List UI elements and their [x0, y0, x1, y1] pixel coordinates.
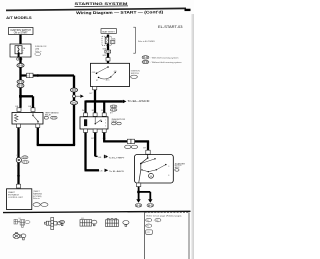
svg-text:Refer to: Refer to — [33, 197, 40, 200]
svg-text:M3: M3 — [147, 226, 149, 228]
svg-text:Refer to EL-POWER.: Refer to EL-POWER. — [138, 40, 155, 43]
svg-text:B: B — [168, 175, 169, 177]
svg-text:SWITCH: SWITCH — [131, 73, 139, 75]
svg-text:L5: L5 — [16, 155, 18, 157]
svg-text:: With theft warning system: : With theft warning system — [151, 56, 179, 59]
svg-text:A/T MODELS: A/T MODELS — [6, 16, 32, 20]
svg-text:F23: F23 — [147, 232, 150, 234]
svg-text:EL-START-03: EL-START-03 — [158, 25, 183, 29]
svg-text:3: 3 — [105, 122, 106, 124]
svg-text:S: S — [168, 166, 169, 168]
svg-text:M: M — [150, 176, 152, 178]
svg-text:5: 5 — [105, 125, 106, 127]
svg-text:M1: M1 — [147, 220, 149, 222]
svg-text:W/R: W/R — [103, 55, 107, 57]
svg-text:: Without theft warning system: : Without theft warning system — [151, 61, 182, 64]
svg-text:IGNITION SWITCH: IGNITION SWITCH — [10, 30, 31, 32]
svg-text:To EL-THEFT: To EL-THEFT — [109, 157, 126, 159]
svg-text:ON or START: ON or START — [14, 32, 29, 35]
svg-text:M5: M5 — [19, 218, 21, 220]
svg-text:STARTING SYSTEM: STARTING SYSTEM — [75, 1, 128, 6]
svg-text:22: 22 — [27, 76, 29, 78]
svg-text:To EL-ASCD: To EL-ASCD — [109, 170, 124, 173]
svg-text:BATTERY: BATTERY — [102, 30, 115, 33]
svg-text:M45: M45 — [81, 218, 84, 220]
svg-text:M2: M2 — [156, 220, 158, 222]
svg-text:Refer to last page (Foldout pa: Refer to last page (Foldout page). — [147, 215, 183, 218]
svg-text:12: 12 — [21, 52, 23, 54]
svg-text:CONTROL UNIT: CONTROL UNIT — [8, 197, 24, 199]
svg-text:To EL-ASCD: To EL-ASCD — [127, 99, 149, 103]
svg-text:1: 1 — [105, 119, 106, 121]
